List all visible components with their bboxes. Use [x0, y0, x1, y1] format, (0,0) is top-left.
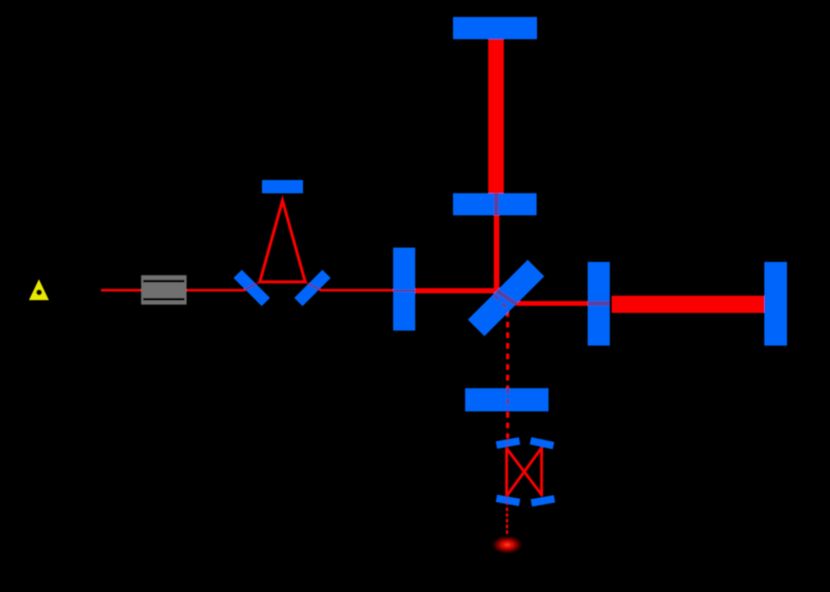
output mode cleaner mirror bottom-left	[496, 495, 520, 506]
main beamsplitter (45 deg)	[468, 260, 544, 336]
beam: bowtie diagonal TL-BR	[507, 448, 543, 496]
mode cleaner top mirror MC2	[262, 180, 303, 193]
refracted beam inside MC1	[244, 282, 260, 291]
beam: output mode cleaner bowtie left leg	[505, 448, 508, 496]
beam inside steering optic	[393, 290, 415, 292]
beam inside east arm input mirror	[588, 301, 610, 306]
transmitted beam inside beamsplitter	[497, 291, 517, 304]
refracted beam inside MC3	[305, 282, 321, 291]
north arm input mirror	[453, 193, 537, 215]
isolator top bar	[143, 280, 184, 282]
dashed beam inside bowtie top-left mirror	[506, 438, 509, 450]
north arm end mirror	[453, 17, 537, 39]
laser source aperture dot	[36, 290, 42, 296]
beam: east arm cavity (thick)	[612, 296, 765, 313]
laser source symbol	[29, 279, 49, 300]
beam: beamsplitter to east arm input mirror	[516, 301, 588, 306]
beam: north arm cavity (thick)	[488, 39, 504, 193]
reflected dashed beam inside beamsplitter	[494, 295, 509, 311]
beam: output mode cleaner bowtie right leg	[540, 448, 543, 497]
dashed beam inside bowtie bottom-left mirror	[506, 495, 509, 507]
beam: mode cleaner to steering optic	[320, 289, 395, 292]
output mode cleaner mirror bottom-right	[531, 495, 555, 506]
output lens	[465, 388, 548, 411]
beam: bowtie diagonal TR-BL	[507, 448, 542, 496]
faraday isolator box	[141, 275, 187, 304]
mode cleaner output mirror MC3 (45 deg)	[294, 270, 330, 306]
photodiode glow spot	[492, 536, 523, 554]
beam: dashed mode cleaner to photodiode	[506, 508, 508, 537]
beam: dashed output port beamsplitter to output lens	[506, 311, 509, 388]
beam: laser to isolator	[101, 289, 144, 292]
east arm end mirror	[764, 262, 787, 346]
beam: beamsplitter up to north arm input mirror	[494, 215, 500, 293]
isolator bottom bar	[143, 298, 184, 300]
mode cleaner input mirror MC1 (45 deg)	[234, 270, 270, 306]
east arm input mirror	[588, 262, 610, 346]
beam: steering optic to beamsplitter	[415, 288, 499, 293]
beam: triangular mode-cleaner cavity path	[260, 201, 305, 282]
dashed beam inside output lens	[506, 388, 509, 411]
beam: dashed output lens to output mode cleaner	[506, 412, 509, 438]
beam inside north arm input mirror	[494, 193, 499, 215]
output mode cleaner mirror top-right	[530, 437, 555, 449]
output mode cleaner mirror top-left	[496, 437, 520, 448]
beam: isolator to mode-cleaner mirror M1	[185, 289, 246, 292]
steering optic / power recycling mirror	[393, 248, 415, 331]
